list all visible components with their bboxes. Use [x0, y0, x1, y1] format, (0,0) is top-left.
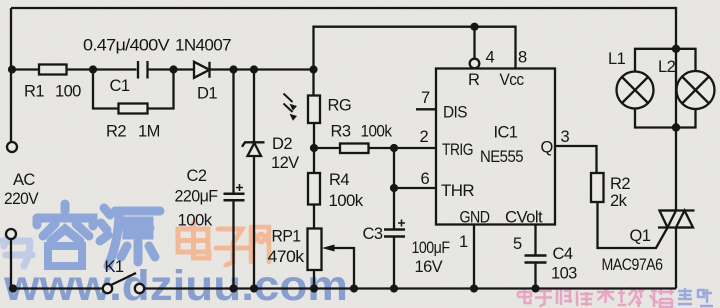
resistor R4 — [308, 173, 320, 205]
watermark glyph rong — [37, 204, 93, 266]
svg-text:220V: 220V — [4, 190, 39, 208]
svg-text:C2: C2 — [187, 167, 207, 185]
node D2 bottom — [250, 284, 258, 292]
lamp L1 — [617, 72, 654, 109]
svg-text:MAC97A6: MAC97A6 — [602, 256, 663, 274]
svg-text:TRIG: TRIG — [442, 141, 473, 159]
wire main row left — [11, 68, 39, 70]
potentiometer RP1 — [308, 229, 322, 271]
node C2 top — [229, 65, 237, 73]
capacitor C2 — [224, 184, 245, 200]
wire R3 to node A — [369, 147, 395, 149]
svg-text:RG: RG — [328, 97, 352, 115]
resistor R2 2k — [591, 173, 604, 202]
svg-text:THR: THR — [441, 182, 475, 200]
node C4 bottom — [531, 284, 539, 292]
svg-text:L1: L1 — [608, 50, 626, 68]
RP1 wiper — [322, 245, 354, 289]
svg-text:C4: C4 — [553, 245, 573, 263]
wire lamp top bar — [635, 49, 696, 72]
node D2 top — [250, 65, 258, 73]
wire C1 to D1 — [148, 68, 195, 70]
svg-text:IC1: IC1 — [494, 124, 518, 142]
wire Q pin3 — [555, 146, 597, 173]
svg-text:100μF: 100μF — [412, 239, 450, 257]
photo arrows — [284, 94, 298, 121]
WATERMARKS — [2, 204, 713, 308]
svg-text:100k: 100k — [361, 123, 393, 141]
node lamps bottom — [672, 123, 680, 131]
wire thr to IC — [394, 187, 436, 189]
wire RG bottom to trig row — [313, 123, 315, 148]
wire bottom rail — [144, 287, 676, 289]
svg-text:R1: R1 — [24, 83, 44, 101]
svg-text:100: 100 — [55, 83, 81, 101]
watermark faint glyph corner — [2, 234, 32, 266]
wire top rail — [11, 8, 676, 48]
wire left vertical from top rail to AC terminal — [10, 8, 12, 142]
resistor R2 1M — [119, 104, 148, 114]
node RG top — [309, 65, 317, 73]
svg-text:1M: 1M — [138, 123, 160, 141]
op-amp IC1 box — [436, 69, 555, 225]
svg-text:0.47μ/400V: 0.47μ/400V — [83, 37, 170, 55]
svg-text:K1: K1 — [105, 258, 124, 276]
svg-text:4: 4 — [486, 49, 495, 67]
node pin4 rail — [470, 23, 478, 31]
wire D1 to RG node — [210, 68, 314, 70]
watermark pink caption — [518, 288, 674, 307]
svg-text:R: R — [468, 71, 480, 89]
node C3 bottom — [390, 284, 398, 292]
svg-text:CVolt: CVolt — [505, 209, 543, 227]
node C2 bottom — [229, 284, 237, 292]
watermark glyph yuan — [100, 208, 160, 266]
pin 7 DIS stub — [416, 108, 436, 110]
wire C2 branch — [232, 70, 234, 289]
terminal AC top — [7, 142, 17, 152]
capacitor C4 — [525, 256, 547, 263]
wire C4 bottom — [534, 263, 536, 289]
svg-text:7: 7 — [421, 89, 430, 107]
wire C3 bottom — [393, 237, 395, 289]
node A trig — [390, 144, 398, 152]
switch K1 — [103, 273, 144, 293]
resistor R3 — [340, 144, 369, 154]
svg-text:DIS: DIS — [443, 104, 468, 122]
node lamps top — [672, 45, 680, 53]
wire pin4 drop — [473, 27, 475, 60]
wire R1 to C1 node — [67, 68, 137, 70]
svg-text:NE555: NE555 — [480, 148, 523, 166]
wire D2 branch — [253, 70, 255, 289]
wire lamps drop — [675, 49, 677, 211]
resistor R1 — [39, 65, 67, 75]
svg-text:C3: C3 — [363, 225, 383, 243]
svg-text:1: 1 — [459, 233, 468, 251]
node B thr — [390, 184, 398, 192]
node trig-RG — [310, 144, 318, 152]
wire Vcc rail — [314, 27, 516, 70]
svg-text:5: 5 — [513, 235, 522, 253]
svg-text:3: 3 — [561, 128, 570, 146]
svg-text:R2: R2 — [610, 175, 630, 193]
svg-text:R2: R2 — [106, 123, 126, 141]
svg-text:www.dziuu.com: www.dziuu.com — [3, 262, 348, 308]
svg-text:Q: Q — [541, 139, 554, 157]
pin 5 CVolt wire — [534, 225, 536, 256]
svg-text:L2: L2 — [658, 58, 676, 76]
svg-text:Q1: Q1 — [630, 227, 651, 245]
wire C3 top — [393, 188, 395, 230]
triac Q1 — [658, 211, 695, 228]
svg-text:2: 2 — [420, 128, 429, 146]
capacitor C3 — [384, 220, 405, 237]
node wiper bottom — [350, 284, 358, 292]
svg-text:RP1: RP1 — [272, 228, 301, 246]
svg-text:D2: D2 — [272, 135, 292, 153]
svg-text:Vcc: Vcc — [500, 71, 524, 89]
svg-text:C1: C1 — [110, 77, 130, 95]
watermark glyph zi — [216, 229, 248, 265]
wire trig to IC — [394, 147, 436, 149]
svg-text:16V: 16V — [415, 258, 443, 276]
wire R4 to RP1 — [313, 205, 315, 229]
svg-text:D1: D1 — [197, 85, 217, 103]
pin 4 circle — [470, 59, 480, 69]
diode D1 — [194, 62, 210, 78]
node C1 left — [89, 65, 97, 73]
node main-R1 — [8, 65, 16, 73]
node RP1 bottom — [310, 284, 318, 292]
wire RG top — [312, 70, 314, 96]
svg-text:AC: AC — [13, 171, 35, 189]
capacitor C1 — [138, 61, 148, 79]
wire R2 to gate — [598, 202, 668, 248]
svg-text:R3: R3 — [331, 123, 351, 141]
svg-text:8: 8 — [518, 49, 527, 67]
wire RP1 bottom — [313, 270, 315, 289]
svg-text:470k: 470k — [268, 248, 305, 266]
zener D2 — [242, 142, 265, 156]
wire lamp bottom bar — [635, 109, 696, 128]
terminal AC bottom — [6, 229, 16, 239]
wire AC bottom terminal to bottom rail — [11, 239, 103, 289]
watermark glyph dian — [178, 223, 209, 258]
svg-text:6: 6 — [421, 170, 430, 188]
svg-text:100k: 100k — [329, 192, 364, 210]
resistor R2 1M loop — [93, 70, 174, 109]
svg-text:GND: GND — [460, 209, 491, 227]
watermark glyph wang — [251, 227, 269, 262]
node GND bottom — [470, 284, 478, 292]
wire node A down to THR node — [393, 148, 395, 188]
svg-text:1N4007: 1N4007 — [175, 37, 231, 55]
wire R4 top — [313, 148, 315, 173]
svg-text:12V: 12V — [271, 154, 299, 172]
node C1 right — [169, 65, 177, 73]
wire trig row left — [314, 147, 340, 149]
svg-text:2k: 2k — [610, 192, 628, 210]
svg-text:220μF: 220μF — [175, 188, 218, 206]
wire triac to bottom rail — [675, 228, 677, 289]
node bottom-left corner — [9, 284, 17, 292]
svg-text:R4: R4 — [329, 171, 349, 189]
svg-text:103: 103 — [551, 265, 577, 283]
lamp L2 — [677, 71, 715, 109]
pin 1 GND wire — [473, 225, 475, 289]
svg-text:100k: 100k — [178, 212, 213, 230]
resistor RG — [308, 96, 320, 124]
